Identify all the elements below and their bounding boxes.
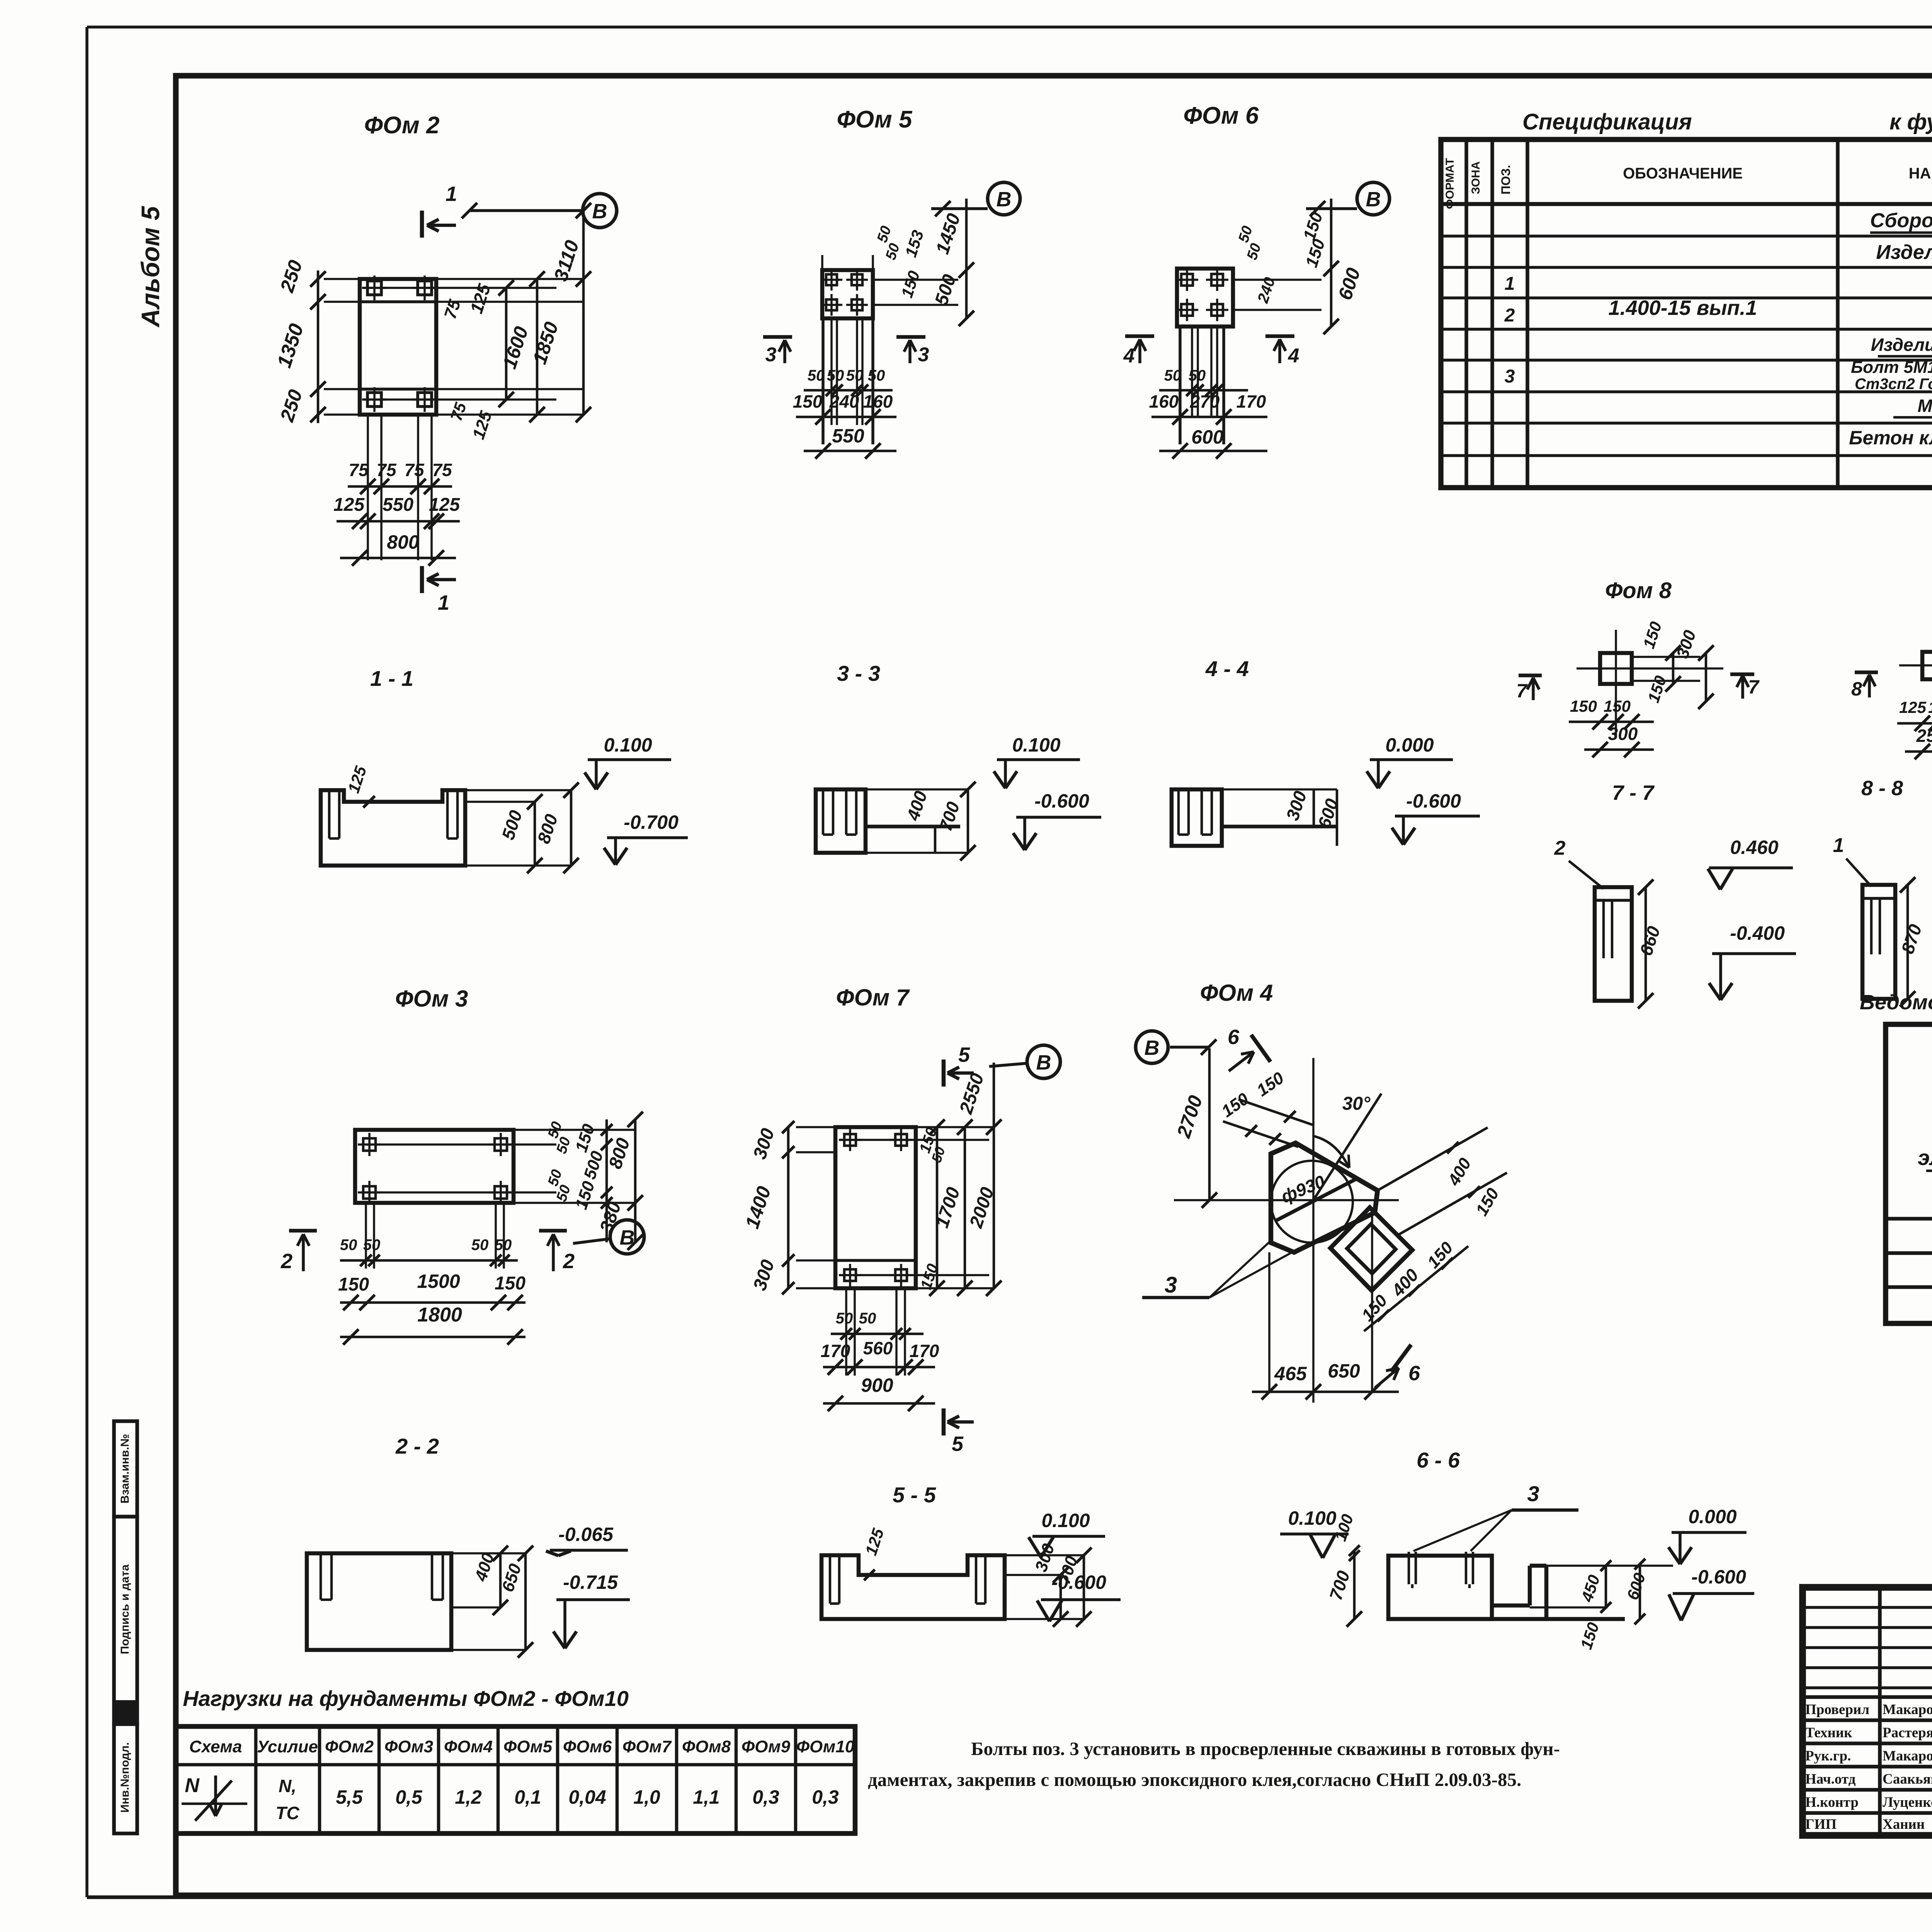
svg-text:МАТЕРИАЛЫ: МАТЕРИАЛЫ bbox=[1918, 396, 1932, 416]
svg-text:50: 50 bbox=[1164, 367, 1182, 384]
svg-text:900: 900 bbox=[861, 1374, 893, 1396]
svg-text:3: 3 bbox=[918, 344, 929, 366]
svg-text:1: 1 bbox=[446, 182, 457, 206]
svg-text:0.460: 0.460 bbox=[1730, 837, 1778, 858]
svg-text:550: 550 bbox=[832, 425, 864, 447]
svg-text:к фундаментам ФОм2 - ФОм10: к фундаментам ФОм2 - ФОм10 bbox=[1889, 109, 1932, 134]
svg-text:-0.065: -0.065 bbox=[558, 1524, 614, 1545]
svg-text:2: 2 bbox=[1554, 837, 1566, 859]
svg-text:1800: 1800 bbox=[417, 1304, 462, 1326]
svg-text:ФОм 3: ФОм 3 bbox=[395, 986, 468, 1012]
svg-text:3 - 3: 3 - 3 bbox=[837, 661, 880, 685]
svg-text:150: 150 bbox=[1570, 697, 1597, 715]
svg-text:7: 7 bbox=[1748, 676, 1760, 698]
svg-text:5 - 5: 5 - 5 bbox=[893, 1483, 936, 1507]
svg-text:ФОм6: ФОм6 bbox=[563, 1737, 612, 1756]
svg-text:0.100: 0.100 bbox=[1012, 734, 1060, 756]
svg-text:0,04: 0,04 bbox=[568, 1786, 606, 1808]
svg-text:ГИП: ГИП bbox=[1805, 1816, 1837, 1832]
svg-text:50: 50 bbox=[808, 367, 825, 384]
svg-text:75: 75 bbox=[349, 460, 369, 480]
svg-text:В: В bbox=[1036, 1051, 1051, 1074]
svg-text:650: 650 bbox=[1328, 1360, 1360, 1382]
svg-text:ФОм4: ФОм4 bbox=[444, 1737, 493, 1756]
svg-text:-0.600: -0.600 bbox=[1406, 790, 1461, 812]
svg-text:Усилие: Усилие bbox=[257, 1737, 318, 1756]
svg-text:6 - 6: 6 - 6 bbox=[1417, 1448, 1460, 1472]
svg-text:7 - 7: 7 - 7 bbox=[1612, 781, 1655, 804]
svg-text:600: 600 bbox=[1191, 426, 1224, 448]
svg-text:0,5: 0,5 bbox=[395, 1786, 423, 1808]
svg-text:1.400-15 вып.1: 1.400-15 вып.1 bbox=[1609, 296, 1757, 320]
svg-text:ФОм2: ФОм2 bbox=[325, 1737, 374, 1756]
svg-text:Луценко: Луценко bbox=[1883, 1794, 1932, 1810]
svg-text:В: В bbox=[592, 200, 607, 223]
svg-text:50: 50 bbox=[471, 1236, 489, 1253]
svg-text:75: 75 bbox=[432, 460, 452, 480]
svg-text:75: 75 bbox=[376, 460, 397, 480]
svg-text:ФОм 4: ФОм 4 bbox=[1200, 980, 1273, 1006]
svg-text:4: 4 bbox=[1288, 345, 1299, 367]
svg-text:Нач.отд: Нач.отд bbox=[1805, 1771, 1856, 1787]
svg-text:-0.700: -0.700 bbox=[624, 811, 679, 833]
svg-text:6: 6 bbox=[1228, 1026, 1240, 1049]
svg-text:4: 4 bbox=[1123, 345, 1135, 367]
svg-text:-0.715: -0.715 bbox=[563, 1571, 618, 1593]
svg-text:3: 3 bbox=[1505, 366, 1515, 387]
svg-text:1,0: 1,0 bbox=[633, 1786, 660, 1808]
svg-text:Ханин: Ханин bbox=[1883, 1816, 1925, 1832]
svg-text:Сборочные единицы: Сборочные единицы bbox=[1870, 209, 1932, 232]
svg-text:ФОм7: ФОм7 bbox=[622, 1737, 672, 1756]
svg-text:170: 170 bbox=[821, 1341, 850, 1361]
svg-text:Взам.инв.№: Взам.инв.№ bbox=[119, 1434, 131, 1503]
svg-text:Фом 8: Фом 8 bbox=[1605, 578, 1672, 603]
svg-text:7: 7 bbox=[1516, 680, 1528, 702]
svg-text:5: 5 bbox=[952, 1432, 964, 1456]
svg-text:1: 1 bbox=[438, 591, 449, 614]
svg-text:Альбом 5: Альбом 5 bbox=[136, 206, 165, 328]
svg-text:50: 50 bbox=[859, 1310, 876, 1327]
svg-text:170: 170 bbox=[910, 1341, 939, 1361]
svg-text:0,3: 0,3 bbox=[812, 1786, 839, 1808]
svg-text:50: 50 bbox=[868, 367, 885, 384]
svg-text:Проверил: Проверил bbox=[1805, 1702, 1869, 1718]
svg-text:150: 150 bbox=[1604, 697, 1631, 715]
svg-text:ФОм 6: ФОм 6 bbox=[1184, 102, 1259, 129]
svg-text:ФОм9: ФОм9 bbox=[742, 1737, 791, 1756]
svg-text:150: 150 bbox=[338, 1274, 369, 1295]
svg-text:Бетон класса В 12.5: Бетон класса В 12.5 bbox=[1849, 427, 1932, 449]
svg-text:465: 465 bbox=[1274, 1363, 1307, 1384]
svg-text:270: 270 bbox=[1190, 391, 1220, 412]
svg-text:Изделия стандартные: Изделия стандартные bbox=[1871, 335, 1932, 355]
svg-text:0,3: 0,3 bbox=[752, 1786, 779, 1808]
svg-text:В: В bbox=[1366, 188, 1381, 211]
svg-text:0.000: 0.000 bbox=[1385, 734, 1434, 756]
svg-text:8: 8 bbox=[1851, 678, 1862, 700]
svg-text:550: 550 bbox=[383, 495, 413, 515]
svg-text:Техник: Техник bbox=[1805, 1725, 1852, 1741]
svg-text:Схема: Схема bbox=[189, 1737, 242, 1756]
svg-text:Инв.№подл.: Инв.№подл. bbox=[119, 1742, 131, 1813]
svg-text:-0.600: -0.600 bbox=[1034, 790, 1089, 812]
svg-text:ПОЗ.: ПОЗ. bbox=[1499, 165, 1513, 195]
svg-text:Н.контр: Н.контр bbox=[1805, 1794, 1859, 1810]
svg-text:150: 150 bbox=[495, 1273, 526, 1294]
svg-text:Нагрузки на фундаменты ФОм: Нагрузки на фундаменты ФОм2 - ФОм10 bbox=[183, 1686, 629, 1711]
svg-text:125: 125 bbox=[1899, 698, 1927, 716]
svg-text:0,1: 0,1 bbox=[514, 1786, 541, 1808]
svg-text:75: 75 bbox=[404, 460, 425, 480]
svg-text:Болты поз. 3 установить в прос: Болты поз. 3 установить в просверленные … bbox=[971, 1738, 1560, 1759]
svg-text:ТС: ТС bbox=[276, 1803, 299, 1823]
svg-text:50: 50 bbox=[340, 1236, 357, 1253]
svg-text:N,: N, bbox=[279, 1776, 296, 1796]
svg-text:Подпись и дата: Подпись и дата bbox=[119, 1564, 131, 1654]
svg-text:0.100: 0.100 bbox=[1041, 1510, 1090, 1531]
svg-text:240: 240 bbox=[829, 391, 859, 412]
svg-text:Изделия закладные: Изделия закладные bbox=[1876, 241, 1932, 264]
svg-text:Макарова: Макарова bbox=[1883, 1748, 1932, 1764]
svg-text:1 - 1: 1 - 1 bbox=[370, 666, 413, 690]
svg-text:5: 5 bbox=[958, 1043, 970, 1066]
svg-text:560: 560 bbox=[863, 1338, 893, 1358]
svg-text:даментах, закрепив с помощью э: даментах, закрепив с помощью эпоксидного… bbox=[868, 1769, 1521, 1790]
svg-text:170: 170 bbox=[1236, 391, 1266, 412]
svg-text:50: 50 bbox=[495, 1236, 512, 1253]
svg-text:125: 125 bbox=[333, 495, 365, 515]
svg-text:125: 125 bbox=[1928, 698, 1932, 716]
svg-text:0.100: 0.100 bbox=[1288, 1507, 1336, 1529]
svg-text:8 - 8: 8 - 8 bbox=[1861, 777, 1903, 800]
svg-text:НАИМЕНОВАНИЕ: НАИМЕНОВАНИЕ bbox=[1909, 165, 1932, 182]
svg-text:4 - 4: 4 - 4 bbox=[1205, 656, 1249, 681]
svg-text:800: 800 bbox=[387, 531, 419, 553]
svg-text:50: 50 bbox=[363, 1236, 381, 1253]
svg-text:ЗОНА: ЗОНА bbox=[1469, 161, 1482, 194]
svg-text:-0.400: -0.400 bbox=[1730, 922, 1785, 944]
svg-text:250: 250 bbox=[1916, 726, 1932, 746]
svg-text:ФОм 5: ФОм 5 bbox=[837, 106, 913, 133]
svg-text:150: 150 bbox=[793, 391, 823, 412]
svg-text:50: 50 bbox=[846, 367, 864, 384]
svg-text:Саакьянц: Саакьянц bbox=[1883, 1771, 1932, 1787]
svg-text:125: 125 bbox=[429, 495, 460, 515]
svg-text:В: В bbox=[997, 188, 1012, 211]
svg-text:160: 160 bbox=[863, 391, 893, 412]
svg-text:2 - 2: 2 - 2 bbox=[395, 1434, 439, 1458]
svg-text:3: 3 bbox=[765, 344, 777, 366]
svg-text:Макарова: Макарова bbox=[1883, 1702, 1932, 1718]
svg-text:30°: 30° bbox=[1342, 1094, 1371, 1114]
svg-text:160: 160 bbox=[1149, 391, 1179, 412]
svg-text:N: N bbox=[185, 1774, 200, 1797]
svg-text:Рук.гр.: Рук.гр. bbox=[1805, 1748, 1851, 1764]
svg-text:ФОм3: ФОм3 bbox=[384, 1737, 433, 1756]
svg-text:Растеряева: Растеряева bbox=[1883, 1725, 1932, 1741]
svg-text:1: 1 bbox=[1505, 274, 1515, 294]
svg-text:ФОм5: ФОм5 bbox=[503, 1737, 553, 1756]
svg-text:2: 2 bbox=[563, 1250, 575, 1273]
svg-text:-0.600: -0.600 bbox=[1051, 1571, 1106, 1593]
svg-text:1: 1 bbox=[1833, 834, 1844, 857]
svg-text:1,1: 1,1 bbox=[693, 1786, 720, 1808]
svg-text:1500: 1500 bbox=[417, 1270, 460, 1292]
svg-text:2: 2 bbox=[1504, 305, 1515, 326]
svg-text:ФОм10: ФОм10 bbox=[796, 1737, 855, 1756]
svg-text:ФОм8: ФОм8 bbox=[682, 1737, 731, 1756]
svg-text:1,2: 1,2 bbox=[455, 1786, 482, 1808]
svg-text:В: В bbox=[1145, 1036, 1160, 1060]
svg-text:Ст3сп2 Гост24379.1-80: Ст3сп2 Гост24379.1-80 bbox=[1855, 376, 1932, 393]
svg-text:50: 50 bbox=[827, 367, 844, 384]
svg-text:3: 3 bbox=[1527, 1481, 1539, 1506]
svg-text:6: 6 bbox=[1408, 1362, 1420, 1385]
svg-text:-0.600: -0.600 bbox=[1691, 1566, 1746, 1588]
svg-text:50: 50 bbox=[836, 1310, 853, 1327]
svg-text:3: 3 bbox=[1165, 1272, 1177, 1298]
svg-text:ФОм 2: ФОм 2 bbox=[364, 112, 440, 139]
svg-text:Болт 5М16 х 300: Болт 5М16 х 300 bbox=[1851, 358, 1932, 377]
svg-text:элемента: элемента bbox=[1918, 1145, 1932, 1170]
svg-text:0.000: 0.000 bbox=[1688, 1506, 1736, 1527]
svg-text:5,5: 5,5 bbox=[336, 1786, 363, 1808]
svg-text:ФОРМАТ: ФОРМАТ bbox=[1444, 158, 1456, 209]
svg-text:50: 50 bbox=[1189, 367, 1206, 384]
svg-text:0.100: 0.100 bbox=[604, 734, 652, 756]
svg-text:ФОм 7: ФОм 7 bbox=[836, 985, 910, 1010]
svg-text:Спецификация: Спецификация bbox=[1522, 109, 1692, 134]
svg-text:ОБОЗНАЧЕНИЕ: ОБОЗНАЧЕНИЕ bbox=[1623, 165, 1743, 182]
svg-text:300: 300 bbox=[1608, 724, 1638, 744]
svg-text:2: 2 bbox=[281, 1250, 293, 1273]
